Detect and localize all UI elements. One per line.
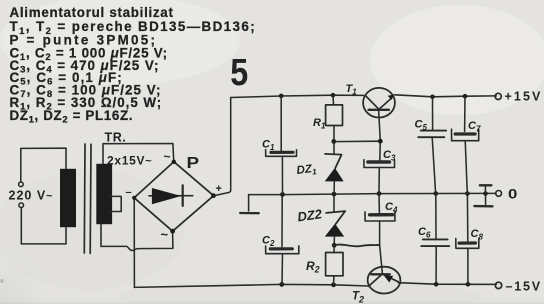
capacitor C8 (electrolytic) [459, 241, 475, 244]
zener diode DZ2 cathode bar [326, 211, 345, 224]
wire: secondary top end to bridge ~ terminal [103, 144, 174, 164]
node: junction bottom rail / C2 [279, 282, 284, 287]
wire: C7 top lead [464, 96, 466, 131]
svg-text:5: 5 [230, 52, 248, 94]
wire: C2 bottom lead [281, 254, 284, 285]
node: junction zero rail / DZ1-DZ2 [332, 192, 337, 197]
wire: C6 top lead [435, 194, 437, 240]
capacitor C2 (electrolytic) [270, 247, 292, 250]
wire: secondary winding series link [111, 196, 122, 211]
bridge rectifier P internal diode lead [149, 195, 193, 197]
wire: C5 top lead [432, 97, 434, 131]
capacitor C7 (electrolytic) [455, 132, 475, 135]
bridge rectifier P diamond [134, 162, 213, 232]
wire: DZ1 cathode lead [333, 142, 335, 155]
node: bridge plus vertex [211, 193, 216, 198]
wire: C3 bottom lead [378, 168, 380, 194]
printed component list [10, 5, 257, 126]
wire: C1 top lead [280, 96, 282, 151]
transistor T1 emitter stroke with arrow [379, 99, 391, 110]
transistor T1 collector stroke [365, 95, 379, 109]
transformer TR core [84, 144, 91, 253]
svg-text:+: + [216, 183, 222, 195]
node: junction T1 base wire [378, 139, 383, 144]
svg-text:DZ1, DZ2 = PL16Z.: DZ1, DZ2 = PL16Z. [10, 108, 134, 126]
node: bridge minus vertex [132, 196, 136, 200]
wire: positive unregulated rail (left of T1) [231, 95, 364, 97]
chassis mark above zero terminal [484, 187, 486, 193]
capacitor C1 (electrolytic) [271, 151, 293, 154]
node: junction DZ2 / R2 / T2 base [332, 243, 337, 248]
svg-text:2x15V~: 2x15V~ [107, 154, 152, 168]
wire: primary top lead [65, 148, 67, 169]
zener diode DZ2 triangle [325, 224, 344, 237]
resistor R2 [326, 253, 343, 276]
wire: bridge plus output riser to positive rail [214, 98, 231, 196]
svg-text:220 V~: 220 V~ [9, 189, 54, 203]
capacitor C4 (electrolytic) [370, 213, 393, 217]
zener diode DZ1 cathode bar [325, 154, 342, 168]
node: 220V upper terminal [19, 182, 24, 187]
zener diode DZ1 triangle [325, 168, 344, 182]
transistor T2 circle [368, 267, 401, 294]
wire: negative unregulated rail (left of T2) [134, 284, 368, 287]
transformer TR primary winding [60, 169, 76, 227]
ground symbol below zero terminal [485, 194, 487, 205]
svg-text:+15V: +15V [505, 89, 543, 103]
wire: DZ2 cathode lead [333, 194, 335, 211]
node: junction top rail / C5 [430, 95, 435, 100]
node: junction zero rail / output ground [483, 191, 488, 196]
node: junction bottom rail / C6 [434, 282, 439, 287]
transistor T2 collector stroke [369, 274, 383, 286]
svg-text:~: ~ [164, 150, 171, 164]
wire: C4 bottom lead [379, 221, 381, 245]
svg-text:TR.: TR. [105, 131, 127, 145]
wire: DZ1 anode lead to zero rail [333, 181, 335, 194]
terminal 0 [496, 191, 502, 197]
node: bridge bottom ~ vertex [170, 229, 175, 234]
ground symbol (left, at C1/C2 node) [248, 195, 250, 211]
svg-text:0: 0 [508, 187, 517, 202]
transformer TR secondary winding [96, 164, 112, 224]
capacitor C6 [423, 238, 448, 240]
capacitor C5 [421, 130, 446, 132]
node: junction bottom rail / R2 [331, 282, 336, 287]
transistor T1 base bar [369, 109, 389, 111]
node: junction zero rail / C5-C6 [434, 191, 439, 196]
wire: C3 top lead [379, 141, 382, 160]
wire: R2 bottom lead [333, 276, 336, 285]
svg-text:P: P [187, 153, 200, 171]
bridge rectifier P internal diode triangle [152, 188, 181, 204]
svg-text:~: ~ [161, 227, 169, 242]
node: junction top rail / R1 [331, 93, 336, 98]
terminal +15V [495, 93, 501, 99]
svg-text:Alimentatorul stabilizat: Alimentatorul stabilizat [10, 5, 174, 20]
node: 220V lower terminal [19, 203, 24, 208]
node: junction zero rail / C3-C4 [377, 191, 382, 196]
terminal -15V [495, 282, 501, 288]
wire: positive regulated rail (right of T1) to +15V [395, 95, 497, 97]
wire: R2 top lead [333, 245, 335, 252]
wire: T1 base lead [379, 110, 381, 141]
transistor T1 circle [363, 88, 395, 118]
wire: bridge minus output down to negative rail [133, 198, 135, 287]
node: junction top rail / C7 [463, 94, 468, 99]
wire: R1 bottom lead [333, 126, 335, 141]
wire: T2 base lead [380, 245, 383, 274]
wire: negative regulated rail (right of T2) to -15V [398, 283, 496, 285]
wire: C2 top lead [281, 195, 283, 247]
wire: C5 bottom lead [432, 137, 435, 193]
wire: mains left lead, upper part with terminal gap [21, 148, 66, 182]
node: junction zero rail / C7-C8 [465, 191, 470, 196]
wire: C1 bottom lead [281, 156, 283, 193]
resistor R1 [326, 105, 343, 126]
wire: C8 top lead [466, 194, 468, 241]
node: junction R1 / DZ1 / T1 base [331, 139, 336, 144]
node: junction bottom rail / C8 [466, 282, 471, 287]
svg-text:–15V: –15V [506, 280, 542, 294]
wire: C8 bottom lead [467, 248, 469, 284]
wire: secondary bottom end to bridge lower ~ terminal (hops over minus wire) [101, 224, 173, 250]
wire: mains left lead, lower part [21, 208, 66, 244]
node: junction top rail / C1 [279, 94, 284, 99]
wire: R1 top lead [332, 95, 335, 105]
wire: DZ2-R2 junction to T2 base column (wavy) [334, 245, 379, 247]
wire: DZ2 anode lead [333, 237, 335, 245]
wire: zero rail [249, 193, 496, 194]
transistor T2 base bar [371, 273, 390, 275]
transistor T2 emitter stroke with arrow [382, 274, 398, 282]
bridge rectifier P internal diode cathode bar [182, 185, 184, 206]
wire: C7 bottom lead [465, 141, 467, 194]
capacitor C3 (electrolytic) [368, 160, 390, 163]
node: bridge top ~ vertex [172, 160, 176, 164]
wire: C4 top lead [378, 194, 380, 213]
wire: R1-DZ1 junction to T1 base column [334, 140, 380, 142]
wire: C6 bottom lead [435, 246, 437, 284]
svg-text:–: – [126, 187, 132, 199]
node: junction zero rail / C1-C2 [280, 192, 285, 197]
